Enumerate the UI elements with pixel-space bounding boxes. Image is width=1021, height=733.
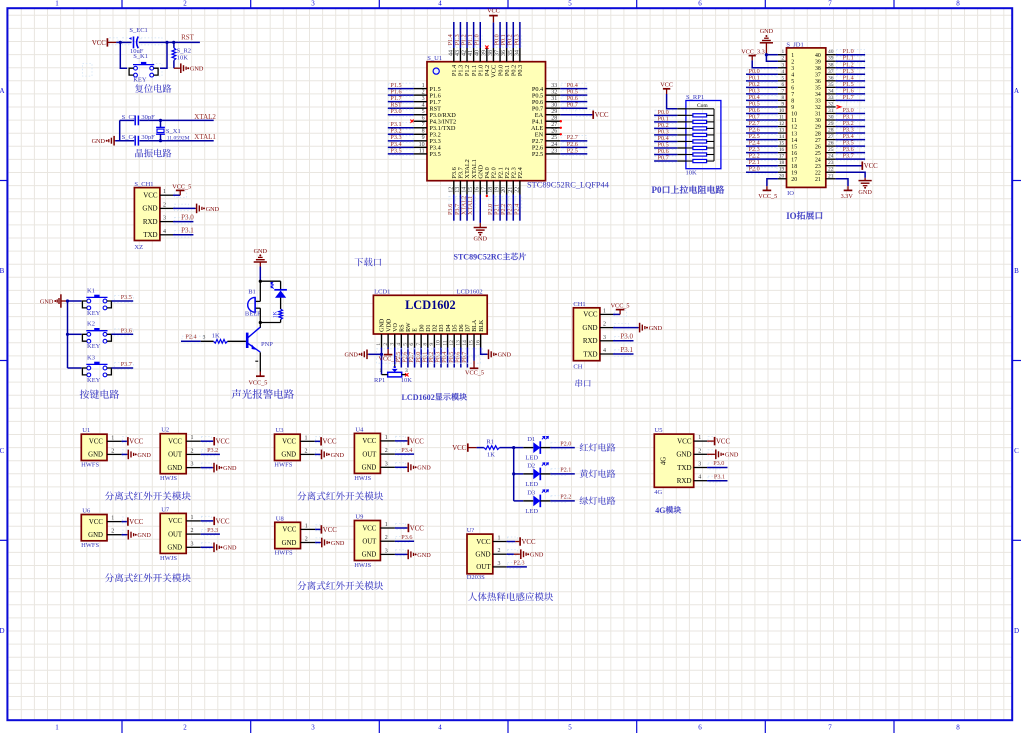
svg-text:P3.1: P3.1 — [714, 473, 725, 480]
svg-text:13: 13 — [779, 128, 785, 134]
svg-text:R1: R1 — [486, 439, 494, 446]
pin 12 P3.6 — [453, 181, 455, 195]
svg-text:LED: LED — [525, 508, 538, 515]
svg-text:GND: GND — [649, 325, 663, 332]
pin 37 (JD1 right) — [826, 73, 836, 75]
svg-text:13: 13 — [791, 131, 797, 137]
push button K1 KEY — [68, 300, 82, 302]
svg-text:VCC: VCC — [129, 439, 143, 446]
svg-text:3: 3 — [781, 62, 784, 68]
svg-text:Com: Com — [697, 103, 708, 109]
wire net P2.6 — [407, 348, 409, 368]
junction — [159, 139, 162, 142]
pin 16 (JD1 left) — [778, 152, 787, 154]
no-ERC marker pin 32 — [837, 106, 841, 109]
svg-text:33: 33 — [828, 95, 834, 101]
wire net P0.1 — [747, 76, 777, 83]
svg-text:4: 4 — [698, 475, 701, 481]
junction — [172, 41, 175, 44]
svg-text:XZ: XZ — [134, 244, 143, 251]
wire key rail — [67, 301, 69, 368]
svg-text:7: 7 — [828, 0, 832, 8]
svg-text:5: 5 — [403, 343, 409, 346]
svg-text:36: 36 — [815, 79, 821, 85]
svg-text:1: 1 — [111, 435, 114, 441]
power VCC — [320, 437, 322, 445]
wire net P3.2 — [837, 121, 865, 128]
wire net P0.4 — [747, 95, 777, 102]
ground (PIR) — [507, 553, 514, 555]
wire net P0.5 — [655, 143, 676, 150]
svg-text:RXD: RXD — [143, 218, 158, 226]
svg-text:20: 20 — [501, 187, 507, 193]
wire RXD net label P3.0 — [173, 221, 193, 223]
transistor Q1 PNP — [246, 333, 249, 348]
svg-text:GND: GND — [331, 540, 345, 547]
svg-text:VCC: VCC — [89, 439, 103, 446]
wire net P0.4 — [447, 348, 449, 368]
svg-text:32: 32 — [551, 90, 557, 96]
svg-text:GND: GND — [254, 248, 268, 255]
svg-text:OUT: OUT — [362, 539, 377, 546]
svg-text:37: 37 — [815, 72, 821, 78]
svg-text:VCC: VCC — [716, 439, 730, 446]
wire left rail to key — [120, 42, 127, 68]
svg-text:5: 5 — [422, 109, 425, 115]
pin 1 P1.5 — [414, 88, 427, 90]
module U7 HWJS — [160, 513, 186, 553]
wire XTAL2 row — [120, 119, 135, 121]
svg-text:D3: D3 — [527, 489, 535, 496]
svg-text:GND: GND — [167, 545, 182, 552]
svg-text:KEY: KEY — [133, 77, 147, 84]
pin 27 (JD1 right) — [826, 139, 836, 141]
wire net P2.7 — [414, 348, 416, 368]
no-ERC marker pin 26 — [560, 133, 562, 135]
svg-text:3: 3 — [311, 724, 315, 732]
pin 23 P2.5 — [546, 153, 561, 155]
wire net P0.3 — [655, 130, 676, 137]
pin 13 D6 (LCD) — [460, 334, 462, 348]
svg-text:34: 34 — [828, 88, 834, 94]
pin 15 BLA (LCD) — [473, 334, 475, 348]
svg-text:22: 22 — [815, 170, 821, 176]
svg-text:VCC: VCC — [168, 518, 182, 525]
svg-text:1K: 1K — [212, 333, 220, 340]
svg-text:P2.1: P2.1 — [560, 467, 571, 474]
wire net P1.1 — [469, 35, 476, 48]
wire VCC_3.3 to pin 3 — [752, 60, 778, 67]
svg-text:K2: K2 — [87, 321, 95, 328]
capacitor S_C3 30pF — [134, 116, 136, 126]
svg-text:1: 1 — [498, 536, 501, 542]
wire right rail to key — [160, 42, 167, 68]
wire net P2.6 — [561, 142, 586, 149]
svg-text:2: 2 — [163, 202, 166, 208]
svg-text:STC89C52RC: STC89C52RC — [454, 253, 503, 262]
svg-text:30pF: 30pF — [141, 114, 155, 121]
wire net P2.5 — [561, 149, 586, 156]
svg-text:33: 33 — [551, 83, 557, 89]
pin 2 GND — [107, 534, 122, 536]
svg-text:11: 11 — [791, 118, 797, 124]
svg-text:10K: 10K — [401, 377, 413, 384]
pin 33 (JD1 right) — [826, 99, 836, 101]
svg-text:15: 15 — [469, 340, 475, 346]
wire XTAL1 row — [115, 140, 134, 142]
wire net P1.4 — [449, 35, 456, 48]
svg-text:2: 2 — [183, 724, 187, 732]
pin 5 (JD1 left) — [778, 80, 787, 82]
svg-text:U5: U5 — [655, 427, 663, 434]
pin 1 VCC — [301, 528, 316, 530]
svg-text:P1.0: P1.0 — [474, 34, 481, 45]
wire net P1.6 — [837, 89, 865, 96]
wire TXD net label P3.1 — [613, 353, 634, 355]
svg-text:GND: GND — [206, 206, 220, 213]
svg-text:31: 31 — [551, 96, 557, 102]
svg-text:VCC: VCC — [282, 527, 296, 534]
svg-text:30pF: 30pF — [141, 134, 155, 141]
pin 11 P3.5 — [414, 153, 427, 155]
rp1 pin row 9 — [677, 160, 686, 162]
svg-text:25: 25 — [551, 135, 557, 141]
svg-text:44: 44 — [448, 50, 454, 56]
svg-text:XTAL1: XTAL1 — [194, 133, 216, 141]
svg-text:3: 3 — [498, 561, 501, 567]
svg-text:2: 2 — [603, 322, 606, 328]
wire net P2.6 — [747, 128, 777, 135]
title crystal circuit — [135, 149, 143, 157]
svg-text:GND: GND — [137, 452, 151, 459]
title IR module 4 — [297, 581, 306, 590]
wire net RST — [389, 103, 414, 110]
wire net P0.1 — [655, 117, 676, 124]
pin 10 (JD1 left) — [778, 112, 787, 114]
svg-text:6: 6 — [422, 116, 425, 122]
svg-text:6: 6 — [698, 0, 702, 8]
svg-text:D2: D2 — [527, 462, 535, 469]
svg-text:10K: 10K — [177, 55, 189, 62]
svg-text:1: 1 — [385, 522, 388, 528]
pin 14 D7 (LCD) — [466, 334, 468, 348]
wire net P1.6 — [389, 90, 414, 97]
pin 30 P0.7 — [546, 107, 561, 109]
pin 1 VCC — [380, 440, 395, 442]
svg-text:OUT: OUT — [476, 563, 491, 571]
svg-text:HWJS: HWJS — [160, 555, 177, 562]
svg-text:P3.5: P3.5 — [121, 294, 132, 301]
junction — [259, 280, 262, 283]
pin 35 (JD1 right) — [826, 86, 836, 88]
power VCC_5 (LCD pin15) — [473, 348, 475, 361]
svg-text:18: 18 — [779, 160, 785, 166]
svg-text:40: 40 — [815, 53, 821, 59]
svg-text:2: 2 — [183, 0, 187, 8]
svg-text:13: 13 — [455, 187, 461, 193]
pin 40 P1.0 — [479, 48, 481, 62]
wire to led branch — [260, 280, 280, 282]
svg-text:P3.1: P3.1 — [620, 346, 633, 354]
pin 1 (JD1 left) — [778, 54, 787, 56]
pin 31 P0.6 — [546, 101, 561, 103]
svg-text:36: 36 — [501, 50, 507, 56]
wire net P2.0 — [540, 447, 550, 449]
pin-1 marker — [433, 68, 439, 74]
power VCC (reset) — [106, 38, 108, 46]
svg-text:D3: D3 — [439, 324, 445, 331]
svg-text:1K: 1K — [487, 451, 495, 458]
pin 8 (JD1 left) — [778, 99, 787, 101]
svg-text:P3.0: P3.0 — [620, 333, 633, 341]
svg-text:2: 2 — [498, 548, 501, 554]
svg-text:GND: GND — [281, 452, 296, 459]
pin 7 D0 (LCD) — [420, 334, 422, 348]
push button K3 KEY — [68, 367, 82, 369]
svg-text:1: 1 — [305, 435, 308, 441]
svg-text:27: 27 — [551, 122, 557, 128]
wire EA to VCC — [575, 110, 593, 117]
pin 4 (JD1 left) — [778, 73, 787, 75]
no-ERC marker pin 28 — [560, 120, 562, 122]
wire left rail — [119, 120, 121, 140]
svg-text:4G: 4G — [655, 506, 665, 515]
pin 2 OUT — [380, 540, 395, 542]
resistor S_R2 10K — [173, 42, 175, 48]
svg-text:P0.3: P0.3 — [517, 65, 524, 76]
module U1 HWFS — [81, 434, 107, 460]
pin 5 P3.0/RXD — [414, 114, 427, 116]
wire net P0.0 — [747, 69, 777, 76]
power VCC — [213, 517, 215, 525]
wire net P0.7 — [655, 156, 676, 163]
connector S_CH1 XZ — [134, 188, 160, 241]
svg-text:HWJS: HWJS — [354, 562, 371, 569]
junction — [165, 41, 168, 44]
svg-text:VCC: VCC — [864, 163, 878, 170]
svg-text:1: 1 — [603, 308, 606, 314]
wire net P0.2 — [747, 82, 777, 89]
resistor R? 1K (base) — [214, 339, 228, 343]
svg-text:2: 2 — [111, 529, 114, 535]
svg-text:A: A — [0, 87, 5, 95]
pin 6 (JD1 left) — [778, 86, 787, 88]
svg-text:36: 36 — [828, 75, 834, 81]
svg-text:35: 35 — [815, 86, 821, 92]
svg-text:GND: GND — [142, 205, 157, 213]
svg-text:S_C3: S_C3 — [122, 114, 136, 121]
svg-text:P3.6: P3.6 — [401, 534, 412, 541]
no-ERC marker pin 6 — [410, 120, 413, 123]
pin 18 (JD1 left) — [778, 165, 787, 167]
svg-text:IO: IO — [787, 190, 794, 197]
ground — [321, 542, 322, 544]
svg-text:1: 1 — [376, 343, 382, 346]
wire net P1.7 — [837, 95, 865, 102]
svg-text:32: 32 — [828, 101, 834, 107]
svg-text:16: 16 — [475, 340, 481, 346]
svg-text:39: 39 — [828, 56, 834, 62]
svg-text:4G: 4G — [661, 457, 668, 465]
pin 41 P1.1 — [473, 48, 475, 62]
module U6 HWFS — [81, 515, 107, 541]
power VCC (leds) — [467, 443, 469, 451]
wire net P3.1 — [389, 122, 414, 129]
capacitor S_EC1 10uF — [133, 37, 135, 49]
svg-text:P3.5: P3.5 — [429, 151, 440, 158]
svg-text:HWFS: HWFS — [274, 462, 292, 469]
svg-text:VCC: VCC — [452, 445, 466, 452]
pin 4 RS (LCD) — [400, 334, 402, 348]
svg-text:VCC: VCC — [323, 439, 337, 446]
svg-text:S_CH1: S_CH1 — [134, 181, 153, 188]
rp1 pin row 7 — [677, 147, 686, 149]
svg-text:P3.0: P3.0 — [713, 460, 724, 467]
no-ERC marker pin 39 — [485, 46, 488, 49]
module U2 HWJS — [160, 434, 186, 474]
svg-text:LED: LED — [525, 481, 538, 488]
svg-text:4: 4 — [781, 69, 784, 75]
wire net P1.7 — [389, 96, 414, 103]
svg-text:3.3V: 3.3V — [841, 193, 854, 200]
svg-text:26: 26 — [551, 129, 557, 135]
ground — [407, 466, 408, 468]
pin 33 P0.4 — [546, 88, 561, 90]
led D2 — [514, 473, 524, 475]
wire net P1.3 — [837, 69, 865, 76]
svg-text:10: 10 — [779, 108, 785, 114]
svg-text:GND: GND — [167, 465, 182, 472]
svg-text:38: 38 — [828, 62, 834, 68]
module U8 HWFS — [275, 522, 301, 548]
ground (LCD right) — [487, 353, 488, 355]
power VCC (JD1) — [861, 162, 863, 170]
module U5 4G — [654, 434, 693, 487]
svg-text:11: 11 — [419, 148, 425, 154]
svg-text:6: 6 — [781, 82, 784, 88]
wire net P0.3 — [440, 348, 442, 368]
svg-text:40: 40 — [828, 49, 834, 55]
power VCC (4G) — [707, 440, 714, 442]
svg-text:BLK: BLK — [479, 319, 485, 332]
pin 5 RW (LCD) — [407, 334, 409, 348]
svg-text:S_JD1: S_JD1 — [786, 41, 803, 48]
svg-text:23: 23 — [551, 148, 557, 154]
svg-text:9: 9 — [429, 343, 435, 346]
svg-text:2: 2 — [111, 448, 114, 454]
svg-text:1: 1 — [422, 83, 425, 89]
pin 40 (JD1 right) — [826, 54, 836, 56]
svg-text:2: 2 — [698, 448, 701, 454]
svg-text:P0.7: P0.7 — [567, 102, 578, 109]
ground — [127, 534, 128, 536]
title 绿灯电路 — [580, 496, 589, 504]
svg-text:GND: GND — [725, 452, 739, 459]
svg-text:GND: GND — [331, 452, 345, 459]
pin 9 D2 (LCD) — [433, 334, 435, 348]
svg-text:P2.0: P2.0 — [560, 440, 571, 447]
svg-text:22: 22 — [828, 167, 834, 173]
svg-text:38: 38 — [815, 66, 821, 72]
svg-text:1: 1 — [191, 435, 194, 441]
svg-text:19: 19 — [779, 167, 785, 173]
svg-text:12: 12 — [448, 187, 454, 193]
svg-text:1: 1 — [305, 523, 308, 529]
svg-text:TXD: TXD — [583, 350, 597, 358]
wire net P0.6 — [655, 149, 676, 156]
svg-text:1: 1 — [163, 189, 166, 195]
svg-text:D: D — [1014, 627, 1019, 635]
svg-text:27: 27 — [828, 134, 834, 140]
svg-text:U3: U3 — [276, 427, 284, 434]
power VCC (PIR) — [507, 541, 516, 543]
pin 2 P1.6 — [414, 94, 427, 96]
svg-text:9: 9 — [422, 135, 425, 141]
svg-text:1K: 1K — [272, 311, 278, 318]
pin 14 (JD1 left) — [778, 139, 787, 141]
svg-text:P2.3: P2.3 — [513, 560, 524, 567]
led D3 — [514, 500, 524, 502]
ground (mcu) — [479, 223, 481, 228]
svg-text:25: 25 — [828, 147, 834, 153]
svg-text:32: 32 — [815, 105, 821, 111]
svg-text:26: 26 — [828, 141, 834, 147]
wire net P3.1 — [837, 115, 865, 122]
svg-text:VCC: VCC — [487, 7, 500, 14]
svg-text:P3.5: P3.5 — [390, 147, 401, 154]
svg-text:3: 3 — [791, 66, 794, 72]
svg-text:10K: 10K — [686, 170, 698, 177]
ground (reset) — [174, 67, 180, 69]
svg-text:5: 5 — [791, 79, 794, 85]
wire RXD net label P3.0 — [613, 340, 634, 342]
pin 37 P0.0 — [499, 48, 501, 62]
wire net P3.6 — [115, 329, 134, 336]
svg-text:24: 24 — [815, 157, 821, 163]
svg-text:C: C — [1014, 447, 1019, 455]
pin 12 (JD1 left) — [778, 126, 787, 128]
svg-text:VCC_3.3: VCC_3.3 — [741, 49, 765, 56]
svg-text:B1: B1 — [248, 289, 256, 296]
svg-text:22: 22 — [514, 187, 520, 193]
pin 10 P3.4 — [414, 146, 427, 148]
pin 8 D1 (LCD) — [427, 334, 429, 348]
svg-text:P3.6: P3.6 — [121, 328, 132, 335]
svg-text:VCC: VCC — [476, 538, 491, 546]
pin 10 D3 (LCD) — [440, 334, 442, 348]
svg-text:3: 3 — [311, 0, 315, 8]
power VCC — [320, 525, 322, 533]
svg-text:P3.2: P3.2 — [207, 447, 218, 454]
svg-text:P3.3: P3.3 — [207, 527, 218, 534]
wire net P1.1 — [837, 56, 865, 63]
svg-text:8: 8 — [422, 343, 428, 346]
wire net P0.5 — [561, 90, 586, 97]
svg-text:P3.0: P3.0 — [181, 213, 194, 221]
rp1 pin row 8 — [677, 154, 686, 156]
svg-text:17: 17 — [791, 157, 797, 163]
pin 39 (JD1 right) — [826, 60, 836, 62]
svg-text:2: 2 — [791, 59, 794, 65]
svg-text:D4: D4 — [446, 324, 452, 331]
pin 35 P0.2 — [512, 48, 514, 62]
pin 12 D5 (LCD) — [453, 334, 455, 348]
svg-text:31: 31 — [815, 112, 821, 118]
svg-text:9: 9 — [791, 105, 794, 111]
svg-text:E: E — [413, 328, 419, 332]
pin 28 (JD1 right) — [826, 132, 836, 134]
svg-text:8: 8 — [956, 0, 960, 8]
